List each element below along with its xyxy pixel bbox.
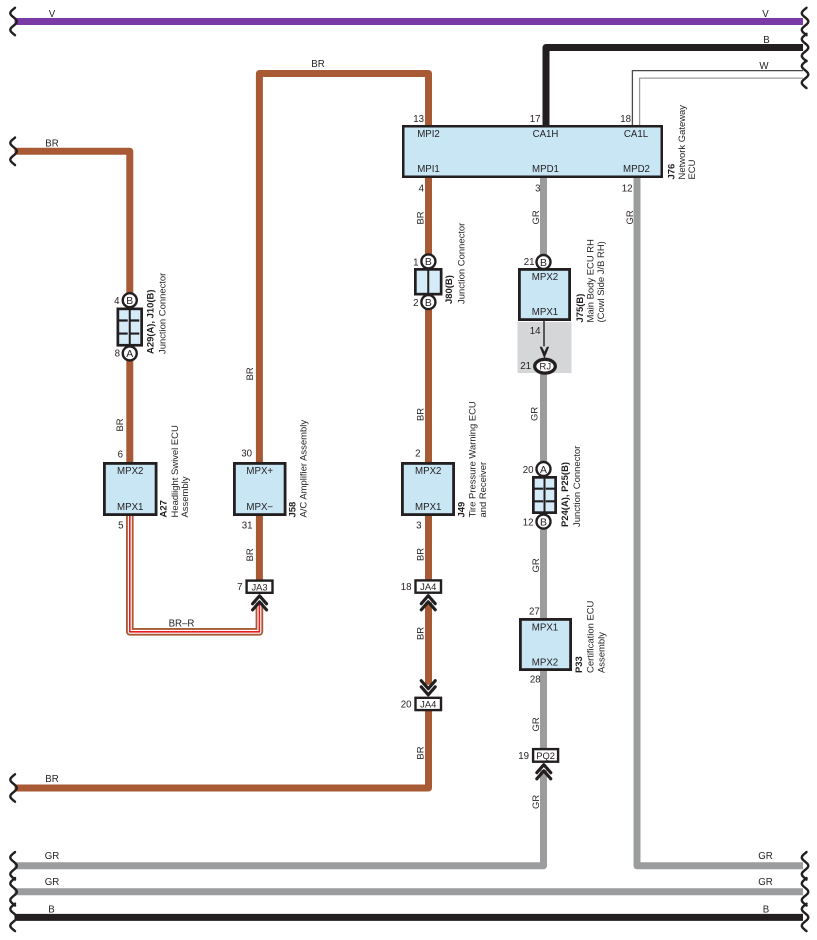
svg-text:and Receiver: and Receiver bbox=[478, 462, 489, 518]
svg-text:GR: GR bbox=[45, 851, 60, 862]
svg-text:V: V bbox=[762, 9, 769, 20]
svg-text:BR: BR bbox=[416, 627, 427, 640]
svg-text:J49: J49 bbox=[457, 502, 468, 518]
svg-text:8: 8 bbox=[115, 349, 120, 360]
svg-text:BR: BR bbox=[115, 418, 126, 431]
svg-text:(Cowl Side J/B RH): (Cowl Side J/B RH) bbox=[596, 241, 607, 322]
svg-text:MPX1: MPX1 bbox=[117, 502, 143, 513]
svg-text:MPI2: MPI2 bbox=[417, 129, 440, 140]
svg-text:GR: GR bbox=[758, 877, 773, 888]
svg-text:J80(B): J80(B) bbox=[444, 275, 455, 304]
svg-text:A29(A), J10(B): A29(A), J10(B) bbox=[146, 289, 157, 354]
svg-text:6: 6 bbox=[118, 449, 123, 460]
svg-text:Certification ECU: Certification ECU bbox=[586, 600, 597, 673]
svg-text:Assembly: Assembly bbox=[180, 476, 191, 517]
svg-text:Junction Connector: Junction Connector bbox=[158, 273, 169, 354]
svg-text:Assembly: Assembly bbox=[597, 632, 608, 673]
svg-text:V: V bbox=[49, 9, 56, 20]
svg-text:31: 31 bbox=[242, 521, 253, 532]
svg-text:ECU: ECU bbox=[687, 159, 698, 179]
svg-text:Main Body ECU RH: Main Body ECU RH bbox=[586, 239, 597, 323]
svg-text:RJ: RJ bbox=[539, 362, 551, 373]
svg-text:7: 7 bbox=[237, 582, 242, 593]
svg-text:A27: A27 bbox=[159, 500, 170, 517]
svg-text:JA4: JA4 bbox=[420, 699, 436, 710]
svg-text:BR–R: BR–R bbox=[169, 619, 195, 630]
svg-text:MPI1: MPI1 bbox=[417, 164, 440, 175]
svg-text:BR: BR bbox=[45, 774, 58, 785]
svg-text:A: A bbox=[126, 349, 133, 360]
svg-text:B: B bbox=[48, 905, 54, 916]
svg-text:B: B bbox=[126, 296, 133, 307]
svg-text:Junction Connector: Junction Connector bbox=[572, 446, 583, 527]
svg-text:PQ2: PQ2 bbox=[536, 750, 555, 761]
svg-text:MPX2: MPX2 bbox=[415, 466, 441, 477]
svg-text:2: 2 bbox=[415, 448, 420, 459]
svg-text:MPX+: MPX+ bbox=[246, 466, 273, 477]
svg-text:BR: BR bbox=[416, 548, 427, 561]
svg-text:BR: BR bbox=[245, 367, 256, 380]
svg-text:MPD2: MPD2 bbox=[623, 164, 650, 175]
svg-text:B: B bbox=[540, 258, 547, 269]
svg-text:J75(B): J75(B) bbox=[575, 294, 586, 323]
svg-text:GR: GR bbox=[625, 210, 636, 224]
svg-text:1: 1 bbox=[413, 257, 418, 268]
svg-text:MPX−: MPX− bbox=[246, 502, 273, 513]
svg-text:BR: BR bbox=[416, 746, 427, 759]
svg-text:Network Gateway: Network Gateway bbox=[677, 105, 688, 180]
svg-text:P33: P33 bbox=[574, 656, 585, 673]
svg-text:A/C Amplifier Assembly: A/C Amplifier Assembly bbox=[299, 420, 310, 518]
svg-text:GR: GR bbox=[45, 877, 60, 888]
svg-text:BR: BR bbox=[416, 211, 427, 224]
svg-text:20: 20 bbox=[401, 699, 412, 710]
svg-text:MPX2: MPX2 bbox=[532, 657, 558, 668]
svg-text:GR: GR bbox=[530, 407, 541, 421]
svg-text:B: B bbox=[763, 35, 769, 46]
svg-text:MPX1: MPX1 bbox=[415, 502, 441, 513]
svg-text:JA3: JA3 bbox=[251, 581, 267, 592]
svg-text:GR: GR bbox=[531, 795, 542, 809]
svg-text:17: 17 bbox=[530, 114, 541, 125]
svg-text:21: 21 bbox=[524, 257, 535, 268]
svg-text:W: W bbox=[759, 61, 769, 72]
svg-text:5: 5 bbox=[118, 521, 123, 532]
svg-text:MPX1: MPX1 bbox=[532, 307, 558, 318]
svg-text:GR: GR bbox=[531, 210, 542, 224]
svg-text:CA1L: CA1L bbox=[624, 129, 649, 140]
svg-text:CA1H: CA1H bbox=[533, 129, 559, 140]
svg-text:J58: J58 bbox=[288, 502, 299, 518]
svg-text:P24(A), P25(B): P24(A), P25(B) bbox=[560, 462, 571, 527]
svg-text:18: 18 bbox=[620, 114, 631, 125]
svg-text:MPX2: MPX2 bbox=[117, 466, 143, 477]
svg-text:21: 21 bbox=[520, 361, 531, 372]
svg-text:14: 14 bbox=[530, 326, 541, 337]
svg-text:B: B bbox=[763, 905, 769, 916]
svg-text:2: 2 bbox=[413, 298, 418, 309]
svg-text:27: 27 bbox=[529, 606, 540, 617]
svg-text:Junction Connector: Junction Connector bbox=[457, 223, 468, 304]
svg-text:MPD1: MPD1 bbox=[532, 164, 559, 175]
svg-text:BR: BR bbox=[311, 59, 324, 70]
svg-text:28: 28 bbox=[530, 674, 541, 685]
svg-text:3: 3 bbox=[416, 521, 421, 532]
svg-text:12: 12 bbox=[622, 184, 633, 195]
svg-text:GR: GR bbox=[531, 558, 542, 572]
svg-text:4: 4 bbox=[419, 184, 425, 195]
svg-text:BR: BR bbox=[416, 408, 427, 421]
svg-text:GR: GR bbox=[758, 851, 773, 862]
svg-text:MPX2: MPX2 bbox=[532, 272, 558, 283]
svg-text:MPX1: MPX1 bbox=[532, 622, 558, 633]
svg-text:JA4: JA4 bbox=[420, 581, 436, 592]
svg-text:B: B bbox=[425, 257, 432, 268]
svg-text:12: 12 bbox=[523, 518, 534, 529]
svg-text:13: 13 bbox=[413, 114, 424, 125]
svg-text:3: 3 bbox=[535, 184, 540, 195]
svg-text:B: B bbox=[540, 517, 547, 528]
svg-text:4: 4 bbox=[114, 296, 120, 307]
svg-text:20: 20 bbox=[523, 465, 534, 476]
svg-text:19: 19 bbox=[518, 751, 529, 762]
svg-text:18: 18 bbox=[401, 582, 412, 593]
svg-text:A: A bbox=[540, 465, 547, 476]
svg-text:30: 30 bbox=[241, 448, 252, 459]
svg-text:B: B bbox=[425, 298, 432, 309]
svg-text:BR: BR bbox=[45, 138, 58, 149]
svg-text:GR: GR bbox=[531, 717, 542, 731]
svg-text:BR: BR bbox=[245, 548, 256, 561]
